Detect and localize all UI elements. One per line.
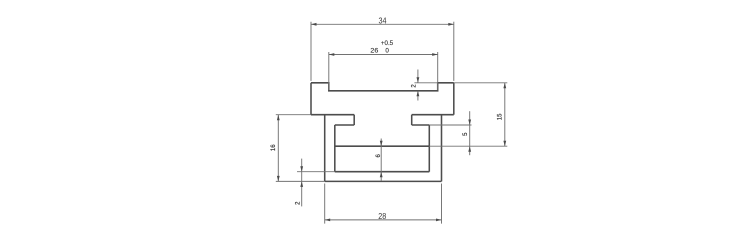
svg-text:28: 28 [378, 212, 386, 221]
svg-text:34: 34 [379, 17, 387, 26]
svg-text:26: 26 [370, 48, 378, 55]
svg-text:5: 5 [463, 132, 469, 136]
svg-text:+0.5: +0.5 [381, 40, 394, 47]
svg-text:15: 15 [498, 113, 504, 120]
svg-text:16: 16 [271, 144, 277, 151]
svg-text:2: 2 [412, 84, 418, 88]
svg-text:2: 2 [295, 201, 301, 205]
svg-text:0: 0 [385, 48, 389, 55]
